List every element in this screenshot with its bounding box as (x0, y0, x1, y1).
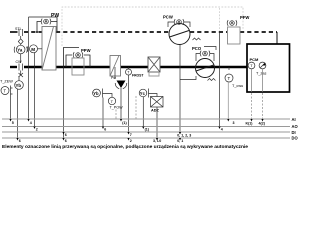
CH main pipe (10, 66, 247, 68)
fan heater X-box (148, 57, 160, 76)
svg-text:M: M (31, 47, 35, 52)
DO terminals ADZ (156, 138, 158, 141)
svg-text:PCM: PCM (250, 57, 260, 62)
PCW drop wire to pipe (179, 45, 181, 68)
svg-text:Pw: Pw (111, 76, 116, 80)
wire pipe to DI/DO buses at x63 (63, 67, 65, 138)
valve diamond (18, 36, 23, 45)
svg-text:T_ZEW: T_ZEW (0, 80, 13, 84)
boiler gray wires to AI (251, 93, 253, 119)
svg-text:PPW: PPW (81, 48, 91, 53)
wire Yb to DO bus (17, 89, 19, 138)
wire room panel to T_POW stem (105, 94, 112, 98)
PCW motor bypass (168, 19, 190, 27)
PFW motor symbol (227, 20, 237, 26)
T_POW return sensor (108, 97, 115, 104)
svg-text:AO: AO (292, 124, 299, 129)
check valve zigzag (193, 38, 201, 40)
junction dots on DHW line (36, 31, 38, 33)
AI terminals boiler (250, 119, 252, 122)
svg-text:PCW: PCW (163, 15, 173, 20)
actuator circle Yb (left) (15, 76, 24, 89)
heat exchanger E2 (110, 56, 121, 77)
svg-text:PW: PW (51, 13, 59, 19)
T_cwu sensor under pipe (225, 67, 233, 82)
svg-text:7: 7 (130, 133, 132, 137)
svg-text:PFW: PFW (240, 15, 249, 20)
svg-text:0, 1, 2, 3: 0, 1, 2, 3 (177, 133, 191, 137)
pump M circle beside Ya (27, 45, 42, 53)
AI terminal 5 (outdoor sensor) (9, 119, 11, 122)
svg-text:Ya: Ya (17, 48, 23, 53)
wire M pump to AO bus (34, 53, 36, 127)
svg-text:(1): (1) (145, 127, 150, 131)
AI terminal 3 T_cwu (227, 119, 229, 122)
svg-text:2: 2 (36, 127, 38, 131)
pump PPW bypass (64, 48, 91, 68)
T_cwu gray wire to AI (227, 82, 229, 119)
svg-text:2: 2 (130, 139, 132, 143)
DI terminal 6 (62, 132, 64, 135)
pump PW bypass loop (29, 17, 58, 32)
AO terminal 6 room panel (102, 127, 104, 130)
svg-text:T: T (111, 99, 114, 104)
AO terminal 2 (33, 127, 35, 130)
DHW dashed supply line (24, 31, 277, 33)
actuator circle Ya (14, 45, 27, 54)
svg-text:STL: STL (15, 27, 22, 31)
limiter CW on CH pipe (19, 64, 23, 71)
wire drop from DHW line into boiler top (276, 32, 278, 44)
AO terminal 4 (218, 127, 220, 130)
Yc wires (142, 97, 144, 127)
DO terminal 2 FROST (127, 138, 129, 141)
svg-text:CW: CW (16, 60, 23, 64)
room panel Yb (middle) (93, 89, 105, 98)
FROST wire to DO bus (128, 75, 130, 132)
svg-text:3: 3 (233, 121, 235, 125)
AI bus (2, 118, 290, 120)
DO terminals 0,1 (179, 138, 181, 141)
svg-text:6: 6 (19, 139, 21, 143)
wire PW loop to AI bus (28, 17, 30, 119)
AO terminal (1) Yc (142, 127, 144, 130)
DI terminal 7 (127, 132, 129, 135)
svg-text:Yb: Yb (93, 91, 99, 96)
boiler fan (259, 62, 266, 69)
pump PW motor symbol (41, 19, 51, 25)
PPW valve body on pipe (72, 58, 84, 75)
heat exchanger E1 (tall, diagonal) (42, 27, 56, 71)
check valve zigzag PCO (208, 79, 216, 81)
T_POW gray wire to AI (115, 110, 117, 120)
DO terminal 6 Yb left (16, 138, 18, 141)
PCO motor bypass (196, 47, 216, 62)
svg-text:FROST: FROST (132, 74, 144, 78)
FROST sensor (126, 67, 132, 75)
svg-text:4: 4 (30, 121, 32, 125)
ADZ wire to DO (156, 107, 158, 138)
gray sensor wire x136 (135, 96, 137, 119)
AI terminal (1) drain wire (120, 119, 122, 122)
DO terminal 6 (62, 138, 64, 141)
pump PCO on CH pipe (196, 59, 215, 78)
svg-text:4(2): 4(2) (259, 122, 266, 126)
DO bus (2, 137, 290, 139)
svg-text:Elementy oznaczone linią przer: Elementy oznaczone linią przerywaną są o… (2, 144, 248, 150)
svg-text:T_cwu: T_cwu (232, 84, 243, 88)
wire x180 to DI/DO (179, 67, 181, 132)
wire Ya to pipe (20, 54, 22, 63)
DHW line solid stub at left (10, 31, 18, 33)
svg-text:PCO: PCO (192, 46, 202, 51)
svg-text:6: 6 (104, 127, 106, 131)
ADZ module (151, 97, 164, 108)
boiler temp sensor (248, 62, 255, 69)
T_ZEW wire to AI (10, 97, 12, 120)
svg-text:DI: DI (292, 130, 296, 135)
svg-text:0, 1: 0, 1 (177, 139, 183, 143)
svg-text:(1): (1) (122, 121, 127, 125)
svg-text:ADZ: ADZ (151, 109, 159, 113)
svg-text:T: T (127, 71, 130, 75)
svg-text:4: 4 (221, 127, 223, 131)
svg-text:Yc: Yc (140, 91, 146, 96)
wire x219 divider to AO (219, 32, 221, 127)
pump PCW on DHW line (169, 24, 190, 45)
DI bus (2, 131, 290, 133)
svg-text:Yb: Yb (16, 83, 22, 88)
svg-text:6: 6 (65, 139, 67, 143)
valve PFW on DHW line (228, 27, 241, 44)
svg-text:6: 6 (65, 133, 67, 137)
boiler body (247, 44, 290, 92)
room panel Yc (139, 89, 151, 98)
boiler internal wires (251, 69, 253, 92)
PCO lower wire (180, 76, 196, 80)
svg-text:T_zas: T_zas (256, 72, 266, 76)
blow-off triangle (115, 67, 127, 119)
drain symbol under pipe (19, 71, 24, 78)
svg-text:T: T (4, 89, 7, 94)
AI terminal 4 (27, 119, 29, 122)
safety limiter STL on DHW line (19, 29, 23, 36)
svg-text:T: T (228, 76, 231, 81)
svg-text:K(1): K(1) (246, 122, 254, 126)
svg-text:DO: DO (292, 136, 299, 141)
svg-text:T_POW: T_POW (110, 106, 124, 110)
terminal markers (9, 119, 265, 143)
AO bus (2, 126, 290, 128)
DI terminals 0,1,2,3 (179, 132, 181, 135)
wire bracket to AO bus (102, 98, 104, 127)
svg-text:AI: AI (292, 117, 296, 122)
svg-text:3, L0: 3, L0 (153, 139, 161, 143)
svg-text:5: 5 (12, 121, 14, 125)
optional-equipment dashed gray enclosure (62, 7, 243, 46)
svg-text:T: T (250, 63, 253, 68)
pump PPW motor symbol (73, 52, 83, 58)
